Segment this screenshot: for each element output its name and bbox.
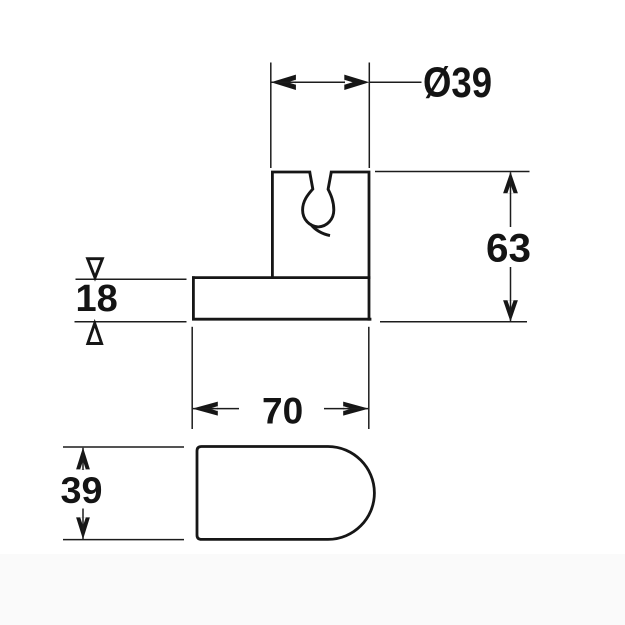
svg-text:39: 39 bbox=[61, 470, 103, 511]
svg-text:Ø39: Ø39 bbox=[423, 59, 492, 107]
svg-text:63: 63 bbox=[486, 227, 531, 271]
svg-text:18: 18 bbox=[76, 278, 118, 320]
svg-text:70: 70 bbox=[262, 391, 303, 432]
